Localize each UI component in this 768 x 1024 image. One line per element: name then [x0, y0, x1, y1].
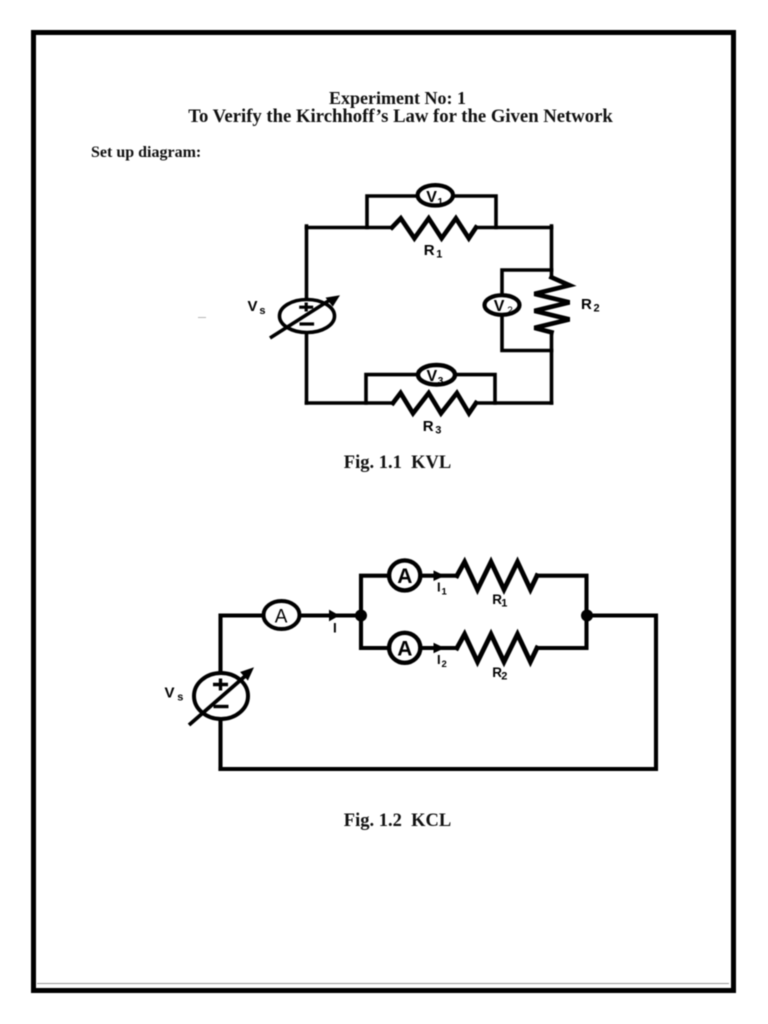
svg-text:1: 1: [436, 249, 442, 261]
svg-text:R: R: [581, 296, 592, 313]
voltmeter V1: [418, 185, 453, 208]
svg-text:2: 2: [507, 306, 513, 317]
svg-text:1: 1: [438, 197, 444, 208]
wire: KCL branch-1 to right junction: [537, 576, 587, 616]
svg-text:3: 3: [438, 376, 444, 387]
svg-text:s: s: [259, 305, 265, 317]
ammeter A (main line): [264, 601, 300, 629]
wire: KVL left side: [305, 226, 309, 403]
resistor R1 (KCL): [457, 562, 537, 590]
wire: KCL branch-2 to right junction: [537, 616, 587, 649]
label I1: [437, 580, 448, 598]
svg-text:A: A: [275, 607, 288, 628]
arrow I (main line): [329, 610, 340, 622]
svg-text:V: V: [248, 298, 258, 315]
svg-text:1: 1: [442, 587, 448, 598]
svg-text:I: I: [333, 621, 337, 636]
label Vs (KCL): [165, 685, 184, 704]
svg-text:2: 2: [594, 303, 600, 315]
label I (main current): [333, 621, 337, 636]
resistor R1 (KVL): [392, 218, 476, 238]
svg-text:V: V: [427, 368, 438, 385]
label R2 (KCL): [492, 665, 507, 683]
svg-text:R: R: [423, 418, 434, 435]
svg-text:s: s: [177, 692, 183, 704]
wire: KCL branch-1 (upper): [361, 576, 457, 616]
wire: KCL source to junction (top left): [221, 616, 362, 770]
resistor R2 (KVL): [534, 277, 569, 332]
svg-text:A: A: [397, 565, 412, 588]
label R1 (KCL): [492, 592, 507, 610]
svg-text:A: A: [397, 637, 412, 660]
wire: voltmeter V3 branch: [366, 375, 495, 403]
label Vs (KVL): [248, 298, 266, 317]
svg-text:I: I: [437, 580, 441, 595]
svg-text:V: V: [494, 298, 505, 315]
junction node (right): [581, 610, 593, 622]
label I2: [437, 652, 447, 670]
wire: voltmeter V2 branch: [502, 270, 552, 351]
resistor R3 (KVL): [393, 393, 476, 413]
svg-text:V: V: [165, 685, 175, 702]
wire: KVL bottom-left segment: [307, 401, 394, 405]
ammeter A (branch 2): [389, 633, 420, 663]
label R1 (KVL): [424, 242, 443, 261]
wire: KVL right side upper: [550, 226, 554, 277]
label R2 (KVL): [581, 296, 600, 315]
svg-text:I: I: [437, 652, 441, 667]
svg-text:2: 2: [501, 671, 507, 683]
svg-text:2: 2: [442, 659, 447, 670]
voltmeter V2: [485, 295, 520, 316]
arrow I1 (branch 1): [434, 570, 445, 581]
voltage source Vs (KVL): [270, 295, 340, 338]
svg-text:R: R: [424, 242, 435, 259]
wire: KCL right side and bottom return: [221, 616, 657, 770]
voltmeter V3: [418, 365, 455, 387]
wire: KVL right side lower: [550, 332, 554, 403]
junction node (left): [355, 610, 367, 622]
label R3 (KVL): [423, 418, 442, 437]
wire: KCL branch-2 (lower): [361, 616, 457, 649]
arrow I2 (branch 2): [434, 643, 445, 654]
wire: KVL top-right segment: [476, 226, 552, 230]
svg-text:3: 3: [435, 425, 441, 437]
svg-text:V: V: [426, 189, 437, 206]
wire: voltmeter V1 branch: [367, 196, 496, 228]
svg-text:1: 1: [501, 598, 507, 610]
voltage source Vs (KCL): [189, 667, 254, 725]
wire: KVL bottom-right segment: [476, 401, 552, 405]
resistor R2 (KCL): [457, 634, 537, 662]
ammeter A (branch 1): [389, 560, 420, 590]
wire: KVL top-left segment: [307, 226, 393, 230]
